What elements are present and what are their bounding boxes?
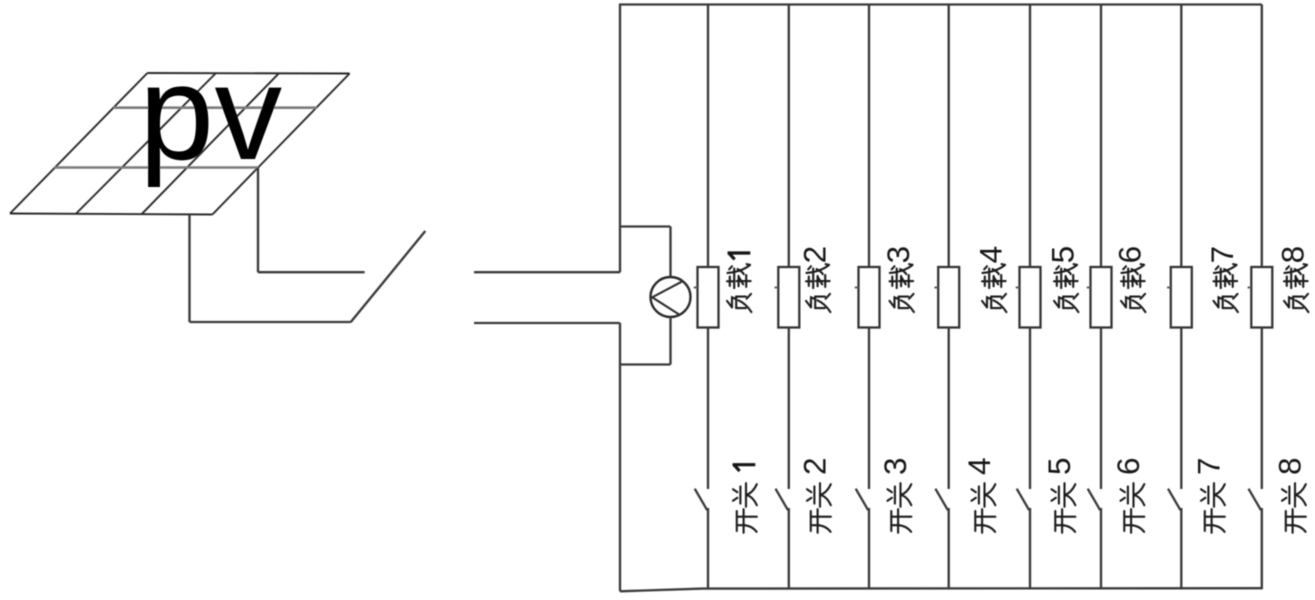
svg-text:8: 8 [1275,246,1311,264]
svg-text:2: 2 [797,246,833,264]
svg-text:6: 6 [1112,246,1148,264]
svg-text:2: 2 [797,457,833,475]
svg-text:3: 3 [877,457,913,475]
svg-text:pv: pv [139,37,283,188]
svg-text:3: 3 [880,246,916,264]
svg-text:5: 5 [1041,457,1077,475]
svg-text:7: 7 [1204,246,1240,264]
svg-text:8: 8 [1272,457,1308,475]
svg-text:7: 7 [1191,457,1227,475]
svg-text:4: 4 [973,246,1009,264]
svg-text:4: 4 [961,457,997,475]
svg-text:5: 5 [1045,246,1081,264]
svg-text:6: 6 [1110,457,1146,475]
